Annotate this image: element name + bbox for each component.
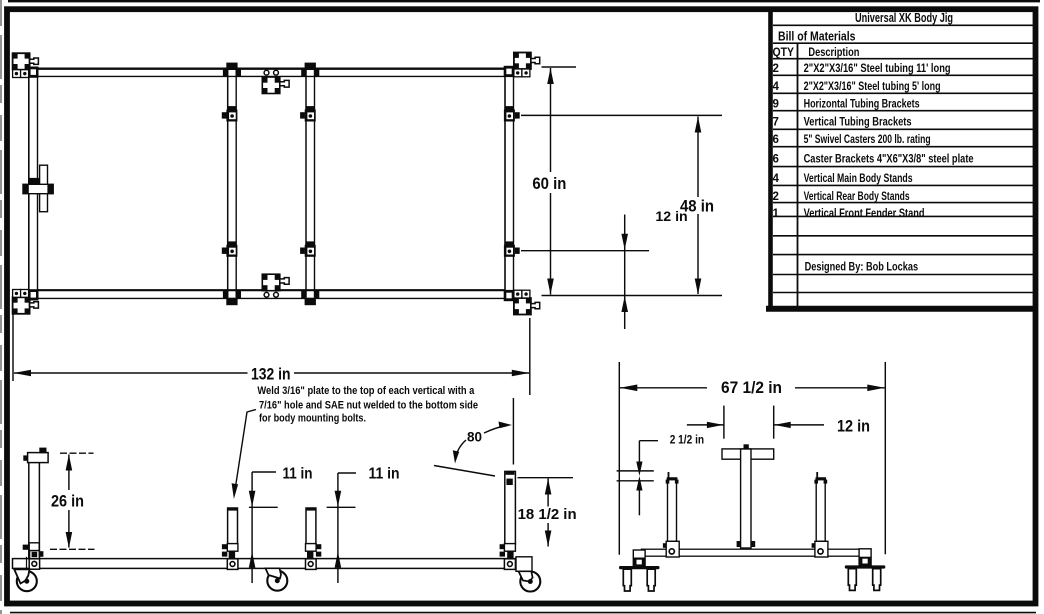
svg-text:67 1/2 in: 67 1/2 in <box>721 378 782 397</box>
svg-text:4: 4 <box>773 173 780 185</box>
svg-text:18 1/2 in: 18 1/2 in <box>518 506 577 523</box>
svg-text:6: 6 <box>773 134 779 146</box>
svg-text:Vertical Main Body Stands: Vertical Main Body Stands <box>804 173 913 185</box>
svg-text:60 in: 60 in <box>532 175 566 193</box>
svg-text:Vertical Tubing Brackets: Vertical Tubing Brackets <box>804 117 912 129</box>
svg-text:11 in: 11 in <box>283 466 313 483</box>
svg-text:Universal XK Body Jig: Universal XK Body Jig <box>855 10 953 25</box>
svg-text:Caster Brackets 4"X6"X3/8" ste: Caster Brackets 4"X6"X3/8" steel plate <box>804 154 974 166</box>
svg-text:80: 80 <box>467 430 482 445</box>
svg-text:2: 2 <box>773 63 779 75</box>
svg-text:12 in: 12 in <box>837 418 870 436</box>
svg-text:Vertical Rear Body Stands: Vertical Rear Body Stands <box>804 191 910 203</box>
svg-text:2"X2"X3/16" Steel tubing 11' l: 2"X2"X3/16" Steel tubing 11' long <box>804 63 951 75</box>
svg-text:2"X2"X3/16" Steel tubing 5' lo: 2"X2"X3/16" Steel tubing 5' long <box>804 81 941 93</box>
svg-text:2: 2 <box>773 191 779 203</box>
svg-text:QTY: QTY <box>773 45 795 59</box>
svg-text:Weld 3/16" plate to the top of: Weld 3/16" plate to the top of each vert… <box>257 385 475 397</box>
svg-text:Description: Description <box>808 45 859 59</box>
svg-text:5" Swivel Casters 200 lb. rati: 5" Swivel Casters 200 lb. rating <box>804 134 931 146</box>
svg-text:26 in: 26 in <box>51 493 84 511</box>
svg-text:2 1/2 in: 2 1/2 in <box>670 433 704 447</box>
svg-text:7/16" hole and SAE nut welded: 7/16" hole and SAE nut welded to the bot… <box>259 400 478 412</box>
svg-text:4: 4 <box>773 81 780 93</box>
svg-text:7: 7 <box>773 117 779 129</box>
svg-text:132 in: 132 in <box>251 365 291 383</box>
svg-text:6: 6 <box>773 154 779 166</box>
svg-text:11 in: 11 in <box>369 466 400 483</box>
svg-text:12 in: 12 in <box>655 209 687 224</box>
svg-text:Horizontal Tubing Brackets: Horizontal Tubing Brackets <box>804 99 920 111</box>
svg-text:Designed By: Bob Lockas: Designed By: Bob Lockas <box>805 262 919 274</box>
svg-text:9: 9 <box>773 99 779 111</box>
svg-text:Bill of Materials: Bill of Materials <box>778 29 856 43</box>
svg-text:for body mounting bolts.: for body mounting bolts. <box>259 413 366 425</box>
